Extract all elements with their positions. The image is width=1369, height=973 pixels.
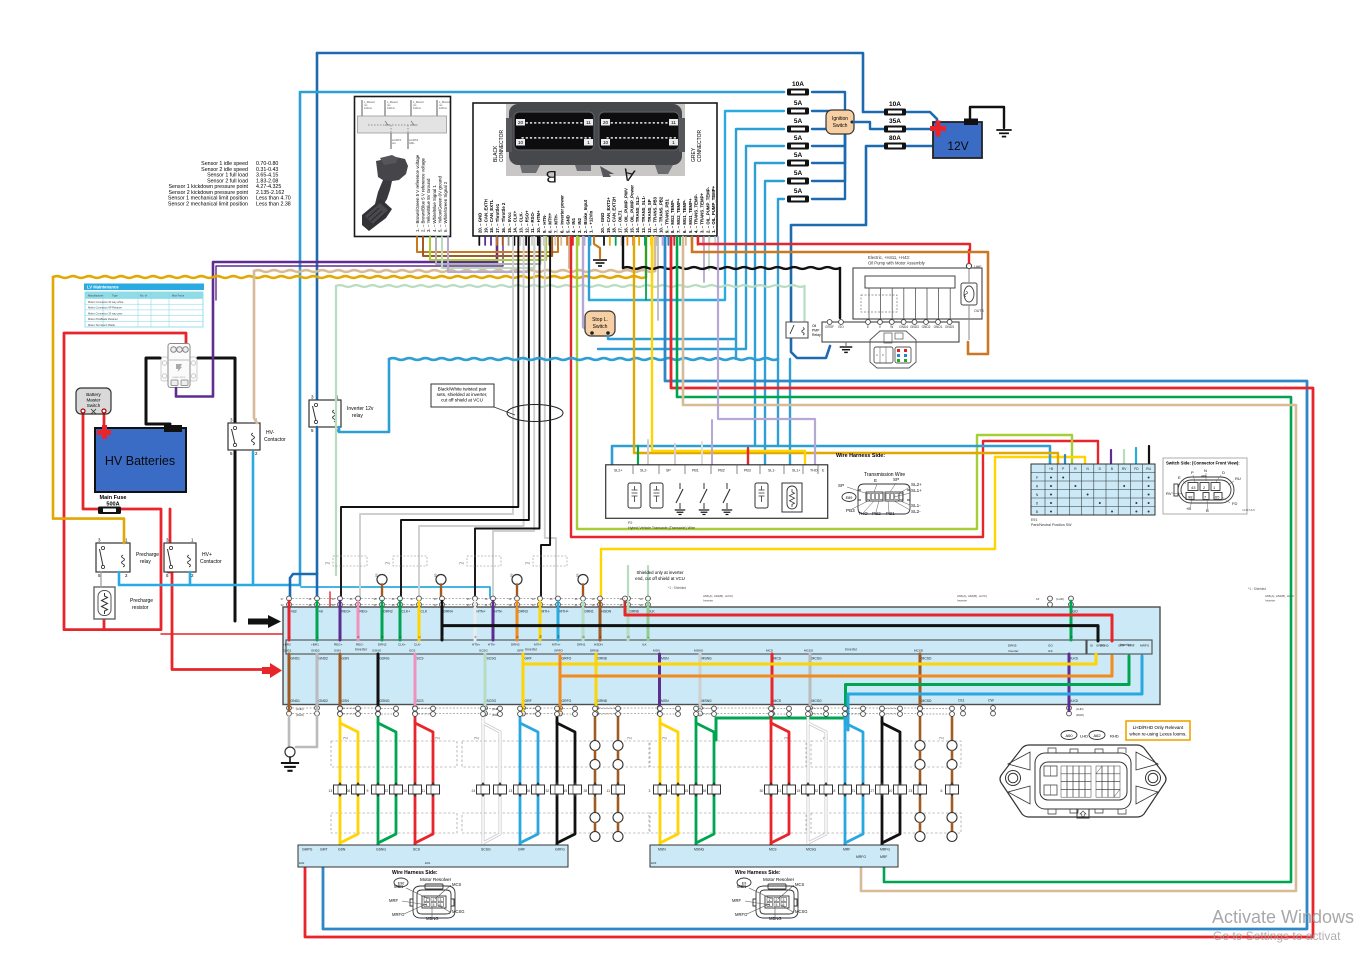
svg-text:SL2+: SL2+ bbox=[911, 482, 922, 487]
wire red to oil pump motor bbox=[968, 250, 970, 263]
wire pin lower bbox=[559, 705, 561, 712]
ECU connector photo bbox=[506, 104, 685, 176]
wire ECU A pin stub bbox=[714, 237, 716, 245]
inverter main block bbox=[283, 607, 1160, 705]
svg-text:7: 7 bbox=[489, 789, 491, 793]
svg-text:26: 26 bbox=[527, 789, 531, 793]
svg-text:MSN: MSN bbox=[658, 848, 666, 852]
wire pale green wavy run bbox=[336, 285, 804, 287]
svg-text:Molex Connector 6P Retainer: Molex Connector 6P Retainer bbox=[88, 306, 122, 310]
ground signal bbox=[593, 260, 607, 266]
svg-text:E89: E89 bbox=[846, 496, 853, 500]
svg-text:relay: relay bbox=[352, 413, 363, 419]
svg-text:Oil Pump with Motor Assembly: Oil Pump with Motor Assembly bbox=[868, 261, 926, 266]
svg-text:+B: +B bbox=[319, 610, 324, 614]
svg-text:Wire Harness Side:: Wire Harness Side: bbox=[836, 453, 885, 459]
svg-text:10: 10 bbox=[889, 789, 893, 793]
svg-text:DRN8: DRN8 bbox=[598, 657, 607, 661]
svg-text:A66(A), A62(B), w/VC): A66(A), A62(B), w/VC) bbox=[957, 594, 987, 598]
wire inverter pin DRN6 bbox=[627, 607, 630, 640]
wire GSNG left bbox=[377, 716, 380, 845]
svg-text:ILKD: ILKD bbox=[1071, 657, 1079, 661]
wire inverter cyan MRFO bbox=[848, 656, 1142, 730]
pressure switch bbox=[703, 483, 705, 489]
svg-text:cut off shield at VCU: cut off shield at VCU bbox=[441, 398, 483, 403]
wire SCSG right core bbox=[483, 721, 500, 845]
wire pedal to ECU bbox=[417, 237, 558, 252]
wire inverter lower pin MSNG bbox=[699, 654, 702, 705]
svg-text:(*1): (*1) bbox=[385, 561, 390, 565]
wire +12Vin feed bbox=[588, 237, 590, 300]
svg-text:3. – IN2: 3. – IN2 bbox=[577, 217, 582, 233]
svg-text:9. – HTN-: 9. – HTN- bbox=[542, 214, 547, 233]
svg-text:GND2: GND2 bbox=[319, 699, 329, 703]
wire relay to resistor bbox=[100, 572, 102, 587]
svg-text:2. – OIL_PUMP_TEMP-: 2. – OIL_PUMP_TEMP- bbox=[705, 186, 710, 233]
wire precharge path thin bbox=[161, 592, 330, 634]
VCU/ECU box bbox=[473, 103, 717, 236]
wire black drop to oil pump bbox=[839, 268, 841, 318]
svg-text:19. – CAN_EXT2+: 19. – CAN_EXT2+ bbox=[606, 197, 611, 233]
svg-text:11: 11 bbox=[586, 120, 591, 126]
svg-text:11: 11 bbox=[607, 789, 611, 793]
svg-text:P: P bbox=[1036, 476, 1038, 480]
wire MCSG left bbox=[807, 716, 810, 845]
svg-text:MCSG: MCSG bbox=[806, 848, 817, 852]
wire inverter internal black bbox=[442, 626, 1098, 641]
svg-text:5. – GND: 5. – GND bbox=[565, 215, 570, 233]
svg-text:Molex Connector 20 way white: Molex Connector 20 way white bbox=[88, 300, 124, 304]
wire ECU B pin stub bbox=[589, 237, 591, 245]
svg-text:DRN8: DRN8 bbox=[590, 649, 599, 653]
svg-text:10: 10 bbox=[518, 140, 524, 146]
wire resolver stub bbox=[919, 797, 922, 812]
svg-text:Inverter: Inverter bbox=[525, 648, 538, 652]
wire pin bbox=[492, 601, 494, 607]
wire resolver stub bbox=[594, 770, 597, 783]
svg-text:SL1+: SL1+ bbox=[792, 469, 801, 473]
svg-text:E91: E91 bbox=[425, 861, 431, 865]
svg-text:(LHD): (LHD) bbox=[296, 707, 304, 711]
svg-text:MCS: MCS bbox=[795, 882, 805, 887]
svg-text:4. – White/Blue Signal 1: 4. – White/Blue Signal 1 bbox=[432, 185, 437, 232]
svg-text:GND1: GND1 bbox=[934, 325, 943, 329]
wire inverter pin REG+ bbox=[339, 607, 342, 640]
wire pin bbox=[647, 601, 649, 607]
svg-text:5: 5 bbox=[433, 903, 435, 907]
wire resolver stub bbox=[951, 751, 954, 759]
svg-text:FD: FD bbox=[1134, 467, 1139, 471]
wire shield drain bbox=[516, 585, 518, 599]
svg-text:Inverter: Inverter bbox=[1008, 649, 1019, 653]
svg-text:MSNG: MSNG bbox=[694, 649, 704, 653]
wire resolver stub bbox=[951, 716, 954, 740]
svg-text:MRFG: MRFG bbox=[856, 855, 866, 859]
wire shield drain bbox=[440, 585, 442, 599]
svg-text:5. – Yellow/Green 0V ground: 5. – Yellow/Green 0V ground bbox=[437, 176, 442, 232]
wire white stub bbox=[674, 444, 676, 466]
svg-text:21: 21 bbox=[852, 789, 856, 793]
wire inverter pin MTH+ bbox=[557, 607, 560, 640]
svg-text:GRF: GRF bbox=[1118, 644, 1125, 648]
wire ECU A pin stub bbox=[697, 237, 699, 245]
wire inverter pin ILK bbox=[647, 607, 650, 640]
svg-text:HTN+: HTN+ bbox=[477, 610, 486, 614]
svg-text:GO: GO bbox=[1073, 610, 1079, 614]
wire twisted pair bbox=[545, 237, 556, 600]
wire pin bbox=[381, 601, 383, 607]
svg-text:MSNG: MSNG bbox=[702, 657, 713, 661]
svg-text:28: 28 bbox=[584, 789, 588, 793]
svg-text:Precharge: Precharge bbox=[136, 552, 159, 558]
svg-text:DRN2: DRN2 bbox=[384, 610, 393, 614]
wire MCS right bbox=[771, 721, 789, 845]
wire twisted pair bbox=[541, 237, 550, 600]
svg-text:MTH+: MTH+ bbox=[552, 643, 561, 647]
svg-text:RU: RU bbox=[1146, 467, 1151, 471]
solenoid bbox=[628, 483, 641, 508]
wire pin bbox=[474, 601, 476, 607]
fuse 5A bbox=[787, 100, 809, 115]
wire pin lower bbox=[699, 705, 701, 712]
wire inverter pin +B bbox=[316, 607, 319, 640]
svg-text:PB2: PB2 bbox=[718, 469, 725, 473]
wire pin lower bbox=[288, 705, 290, 712]
svg-text:SP: SP bbox=[666, 469, 671, 473]
wire white stub 2 bbox=[701, 442, 703, 466]
wire ECU A pin stub bbox=[609, 237, 611, 245]
wire ECU A pin stub bbox=[632, 237, 634, 245]
svg-text:11. – TRANS_PB3: 11. – TRANS_PB3 bbox=[653, 196, 658, 233]
wire GRF right bbox=[520, 721, 538, 845]
pedal sensor schematic bbox=[358, 116, 447, 133]
svg-text:Inverter 12v: Inverter 12v bbox=[347, 406, 374, 412]
svg-text:23: 23 bbox=[909, 789, 913, 793]
svg-text:MRFO: MRFO bbox=[1140, 644, 1150, 648]
MG1 harness strip bbox=[298, 845, 568, 867]
wire black wavy run bbox=[623, 267, 840, 269]
wire pale green to oil pump relay bbox=[803, 286, 805, 322]
svg-text:20: 20 bbox=[518, 120, 524, 126]
wire pin bbox=[316, 601, 318, 607]
svg-text:REG-: REG- bbox=[356, 643, 364, 647]
wire pin bbox=[357, 601, 359, 607]
svg-text:DRN4: DRN4 bbox=[444, 610, 453, 614]
wire fuse to ignition switch bbox=[812, 111, 845, 130]
wire inverter lower pin MCSG bbox=[809, 654, 812, 705]
wire inverter pin HTN- bbox=[492, 607, 495, 640]
svg-text:E92: E92 bbox=[299, 861, 305, 865]
wire resolver stub bbox=[919, 770, 922, 783]
svg-text:6: 6 bbox=[941, 789, 943, 793]
ground battery bbox=[996, 130, 1011, 137]
svg-text:1: 1 bbox=[672, 140, 675, 146]
svg-text:PMP: PMP bbox=[812, 329, 820, 333]
svg-text:THO: THO bbox=[858, 511, 868, 516]
svg-text:GSN: GSN bbox=[342, 657, 350, 661]
wire pedal to ECU bbox=[448, 237, 529, 272]
svg-text:SCSG: SCSG bbox=[479, 649, 488, 653]
wire yellow shielded run to E91 bbox=[601, 457, 1085, 600]
wire ECU B pin stub bbox=[537, 237, 539, 245]
wire GRFO left bbox=[556, 716, 559, 845]
svg-text:24: 24 bbox=[472, 789, 476, 793]
wire ECU A pin stub bbox=[603, 237, 605, 245]
svg-text:Inverter: Inverter bbox=[957, 599, 967, 603]
wire chartreuse IN2 to E91 bbox=[577, 237, 1072, 529]
svg-text:HV+: HV+ bbox=[202, 552, 212, 558]
svg-text:(*1): (*1) bbox=[435, 736, 440, 740]
svg-text:Main Fuse: Main Fuse bbox=[100, 495, 127, 501]
svg-text:M: M bbox=[539, 635, 543, 638]
svg-text:GRF: GRF bbox=[525, 657, 532, 661]
svg-text:(*1): (*1) bbox=[525, 561, 530, 565]
svg-text:Switch Side: (Connector Front: Switch Side: (Connector Front View): bbox=[1166, 461, 1240, 466]
svg-text:6. – Inverter power: 6. – Inverter power bbox=[559, 195, 564, 233]
ECU pin labels connector B bbox=[478, 195, 594, 233]
fuse 5A bbox=[787, 170, 809, 185]
wire pin bbox=[582, 601, 584, 607]
svg-text:35A: 35A bbox=[889, 118, 901, 125]
svg-text:H: H bbox=[474, 636, 478, 638]
svg-text:7. – MTH-: 7. – MTH- bbox=[554, 213, 559, 233]
svg-text:12. – TRANS_SP: 12. – TRANS_SP bbox=[647, 199, 652, 233]
svg-text:MSN: MSN bbox=[661, 699, 669, 703]
wire ECU B pin stub bbox=[531, 237, 533, 245]
svg-text:REG+: REG+ bbox=[342, 610, 351, 614]
svg-text:E91: E91 bbox=[1031, 518, 1037, 522]
svg-text:W: W bbox=[890, 325, 893, 329]
svg-text:MCS: MCS bbox=[452, 882, 462, 887]
HV battery pack bbox=[95, 425, 186, 492]
wire down to inverter relay pin 3 bbox=[316, 53, 319, 400]
svg-text:8. – MG2_TEMP-: 8. – MG2_TEMP- bbox=[670, 199, 675, 233]
svg-text:P: P bbox=[1062, 467, 1064, 471]
svg-text:GSNG: GSNG bbox=[376, 848, 386, 852]
fuse 10A bbox=[884, 101, 906, 116]
wire breaker to HV battery terminal bbox=[146, 358, 170, 424]
circuit breaker bbox=[161, 344, 197, 388]
svg-text:CONNECTOR: CONNECTOR bbox=[499, 129, 505, 162]
svg-text:Park/Neutral Position SW: Park/Neutral Position SW bbox=[1031, 523, 1072, 527]
wire pin lower bbox=[377, 705, 379, 712]
wire main fuse loop to breaker bbox=[64, 333, 186, 630]
svg-text:GO: GO bbox=[1048, 644, 1053, 648]
wire pin bbox=[339, 601, 341, 607]
fuse 5A bbox=[787, 135, 809, 150]
svg-text:12V: 12V bbox=[947, 139, 968, 153]
svg-text:SP: SP bbox=[893, 477, 899, 482]
svg-text:CW: CW bbox=[988, 699, 994, 703]
svg-text:GND2: GND2 bbox=[319, 657, 329, 661]
svg-text:2: 2 bbox=[776, 898, 778, 902]
wire pin lower bbox=[595, 705, 597, 712]
svg-text:B: B bbox=[1036, 510, 1038, 514]
svg-text:5A: 5A bbox=[794, 118, 803, 125]
wire GSNG right bbox=[378, 721, 396, 845]
svg-text:65: 65 bbox=[1215, 495, 1220, 500]
contactor HV+ bbox=[164, 538, 196, 579]
wire ECU A pin stub bbox=[679, 237, 681, 245]
fuse 500A bbox=[98, 507, 121, 515]
wire gold wavy run bbox=[53, 276, 646, 278]
inverter bottom pin connectors bbox=[287, 706, 292, 711]
wire MCSG right bbox=[808, 721, 826, 845]
wire MRFG right bbox=[882, 721, 900, 845]
svg-text:Wire Harness Side:: Wire Harness Side: bbox=[392, 870, 438, 876]
svg-text:11: 11 bbox=[671, 120, 676, 126]
svg-text:GNDS: GNDS bbox=[945, 325, 954, 329]
wire ECU A pin stub bbox=[685, 237, 687, 245]
wire black stub E91 bbox=[1148, 446, 1150, 466]
svg-text:2. – Brown/Blue 5 V reference: 2. – Brown/Blue 5 V reference voltage bbox=[421, 157, 426, 232]
svg-text:1: 1 bbox=[426, 898, 428, 902]
wire green stub mid bbox=[645, 237, 647, 300]
wire pedal to ECU bbox=[436, 237, 540, 264]
svg-text:10A: 10A bbox=[792, 81, 804, 88]
wire light blue run to E91 bbox=[612, 446, 1050, 466]
svg-text:9. – TRANS_PB1: 9. – TRANS_PB1 bbox=[664, 198, 669, 233]
wire resolver stub bbox=[951, 823, 954, 831]
wire twisted pair bbox=[475, 237, 540, 600]
svg-text:80A: 80A bbox=[889, 135, 901, 142]
red arrow into inverter bbox=[262, 663, 282, 678]
svg-text:GRFG: GRFG bbox=[555, 848, 565, 852]
svg-text:1: 1 bbox=[587, 140, 590, 146]
svg-text:Inverter: Inverter bbox=[845, 648, 858, 652]
svg-text:13: 13 bbox=[329, 789, 333, 793]
svg-text:14. – CLK+: 14. – CLK+ bbox=[513, 210, 518, 233]
svg-text:end, cut off shield at VCU: end, cut off shield at VCU bbox=[635, 576, 685, 581]
wire SCS right bbox=[415, 721, 433, 845]
wire 5A fuse 4 feed bbox=[755, 163, 784, 446]
wire 10A to battery positive bbox=[906, 112, 937, 124]
svg-text:CLK-: CLK- bbox=[414, 643, 421, 647]
svg-text:22: 22 bbox=[385, 789, 389, 793]
wire shield drain bbox=[582, 585, 584, 599]
svg-text:1. – +12Vin: 1. – +12Vin bbox=[589, 210, 594, 233]
wire red stub bbox=[747, 448, 749, 466]
svg-text:15: 15 bbox=[685, 789, 689, 793]
wire inverter yellow GRF bbox=[523, 654, 1096, 664]
wire pin lower bbox=[414, 705, 416, 712]
svg-text:19: 19 bbox=[797, 789, 801, 793]
svg-text:B5: B5 bbox=[375, 573, 379, 577]
svg-text:CONNECTOR: CONNECTOR bbox=[697, 129, 703, 162]
wire ECU B pin stub bbox=[508, 237, 510, 245]
svg-text:GND4: GND4 bbox=[899, 325, 908, 329]
wire pin bbox=[599, 601, 601, 607]
svg-text:(*1): (*1) bbox=[459, 561, 464, 565]
svg-text:20. – GND: 20. – GND bbox=[478, 213, 483, 233]
svg-text:Manufacturer: Manufacturer bbox=[88, 294, 103, 298]
svg-text:SL1-: SL1- bbox=[911, 503, 921, 508]
svg-text:GND1: GND1 bbox=[291, 657, 301, 661]
svg-text:Inverter: Inverter bbox=[355, 648, 368, 652]
svg-text:5: 5 bbox=[776, 903, 778, 907]
svg-text:REG+: REG+ bbox=[334, 643, 343, 647]
svg-text:A66(A), A62(B), w/VC: A66(A), A62(B), w/VC bbox=[1265, 594, 1295, 598]
svg-text:Motor Resolver: Motor Resolver bbox=[420, 877, 452, 882]
wire pin bbox=[516, 601, 518, 607]
wire twisted pair bbox=[419, 237, 524, 600]
wire ECU A pin stub bbox=[644, 237, 646, 245]
svg-text:3: 3 bbox=[440, 898, 442, 902]
contactor HV- bbox=[228, 418, 260, 457]
wire 5A fuse 5 feed bbox=[765, 181, 784, 466]
ground oil pump bbox=[840, 347, 853, 352]
wire inverter pin DRN1 bbox=[582, 607, 585, 640]
wire inverter lower pin GSN bbox=[339, 654, 342, 705]
svg-text:A62: A62 bbox=[1093, 733, 1101, 738]
svg-text:SI: SI bbox=[1090, 644, 1093, 648]
svg-text:2. – Brake_Input: 2. – Brake_Input bbox=[583, 199, 588, 233]
svg-text:LHD: LHD bbox=[1080, 734, 1088, 739]
wire pale green down bbox=[335, 286, 337, 575]
wire DRN6 riser bbox=[627, 566, 629, 596]
wire inverter lower pin ILKD bbox=[1068, 654, 1071, 705]
svg-text:Precharge: Precharge bbox=[130, 598, 153, 604]
wire resolver stub bbox=[919, 716, 922, 740]
wire 12V feed to 10A fuse bbox=[317, 53, 884, 112]
svg-text:HTN-: HTN- bbox=[495, 610, 503, 614]
svg-text:3. – Yellow/Blue 5V Ground: 3. – Yellow/Blue 5V Ground bbox=[426, 178, 431, 232]
shielded pair markers bbox=[333, 556, 367, 566]
wire pin bbox=[627, 601, 629, 607]
svg-text:MRF: MRF bbox=[732, 898, 742, 903]
wire 5A fuse 3 feed bbox=[598, 146, 784, 349]
wire pale green stub E91 bbox=[1123, 450, 1125, 466]
svg-text:3: 3 bbox=[783, 898, 785, 902]
svg-text:18. – CAN_EXT2H: 18. – CAN_EXT2H bbox=[612, 197, 617, 233]
svg-text:13: 13 bbox=[778, 789, 782, 793]
wire resolver stub bbox=[594, 716, 597, 740]
svg-text:1. – Brown/Green 5 V reference: 1. – Brown/Green 5 V reference voltage bbox=[415, 154, 420, 232]
wire ECU A pin stub bbox=[691, 237, 693, 245]
wire inverter lower pin GRFO bbox=[559, 654, 562, 705]
svg-text:PB1: PB1 bbox=[886, 511, 895, 516]
svg-text:MSN: MSN bbox=[661, 657, 669, 661]
wire resolver stub bbox=[919, 751, 922, 759]
svg-text:GSN: GSN bbox=[338, 848, 346, 852]
wire inverter pin DRN2 bbox=[381, 607, 384, 640]
ground switch bbox=[675, 510, 686, 515]
wire pin bbox=[557, 601, 559, 607]
pedal pin legend bbox=[415, 154, 448, 232]
svg-text:FD: FD bbox=[1232, 501, 1237, 506]
svg-text:(*1): (*1) bbox=[662, 736, 667, 740]
wire pin bbox=[288, 601, 290, 607]
wire blue frame CAN bbox=[323, 237, 1307, 929]
svg-text:MCSG: MCSG bbox=[452, 909, 465, 914]
svg-text:Molex Terminal 1 Blade: Molex Terminal 1 Blade bbox=[88, 323, 115, 327]
wire MRF left bbox=[844, 716, 847, 845]
svg-text:SL2+: SL2+ bbox=[614, 469, 623, 473]
svg-text:MRF: MRF bbox=[389, 898, 399, 903]
svg-text:11: 11 bbox=[422, 789, 426, 793]
svg-text:Inverter: Inverter bbox=[1265, 599, 1275, 603]
svg-text:GSNG: GSNG bbox=[380, 657, 390, 661]
wire cyan stub E91 bbox=[1135, 448, 1137, 466]
svg-text:19. – CAN_EXTH: 19. – CAN_EXTH bbox=[483, 199, 488, 233]
wire inverter lower pin DRN8 bbox=[595, 654, 598, 705]
svg-text:CLK: CLK bbox=[421, 610, 428, 614]
svg-text:Less than 2.38: Less than 2.38 bbox=[256, 201, 291, 207]
svg-text:27: 27 bbox=[871, 789, 875, 793]
wire ECU B pin stub bbox=[525, 237, 527, 245]
svg-text:B: B bbox=[1206, 508, 1209, 513]
svg-text:MRFG: MRFG bbox=[392, 912, 404, 917]
